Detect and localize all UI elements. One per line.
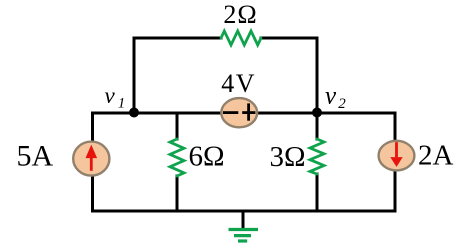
svg-text:3Ω: 3Ω	[270, 141, 306, 173]
svg-text:2A: 2A	[418, 140, 454, 172]
svg-text:v: v	[105, 83, 116, 108]
svg-text:6Ω: 6Ω	[189, 141, 225, 173]
svg-text:4V: 4V	[221, 69, 256, 98]
svg-text:2: 2	[338, 96, 346, 112]
svg-text:5A: 5A	[17, 140, 54, 173]
svg-text:2Ω: 2Ω	[223, 0, 257, 29]
svg-text:v: v	[325, 83, 337, 110]
svg-text:1: 1	[118, 95, 126, 111]
